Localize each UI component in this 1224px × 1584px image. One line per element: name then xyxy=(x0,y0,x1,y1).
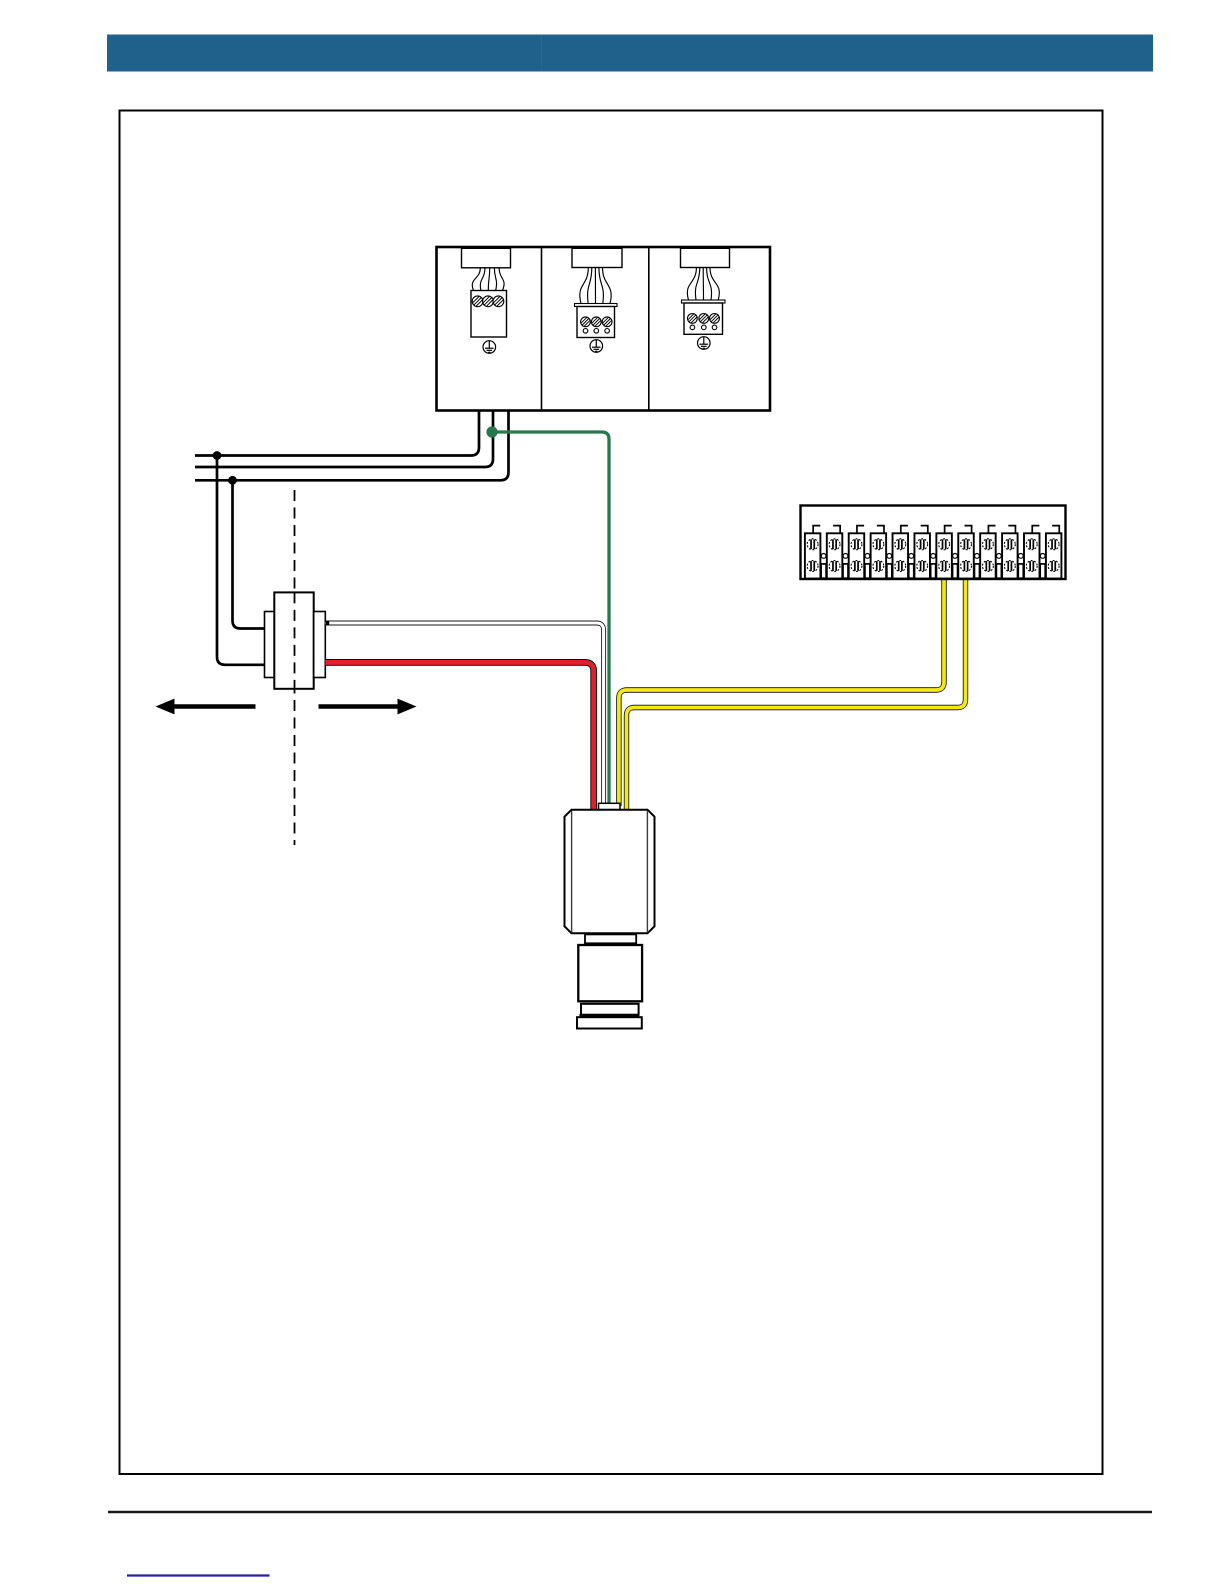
terminal 2 xyxy=(827,526,843,579)
TB3 screw 2 xyxy=(697,311,711,325)
strip gap circle 10 xyxy=(1018,554,1023,559)
TB1 screw 3 xyxy=(491,294,506,309)
diagram frame xyxy=(120,111,1103,1475)
terminal block TB3 lip xyxy=(682,300,726,303)
header cell divider xyxy=(541,35,542,72)
strip gap circle 4 xyxy=(887,554,892,559)
arrow right xyxy=(319,699,417,715)
device body xyxy=(565,810,655,934)
plug right half xyxy=(314,612,326,678)
cable gland 3 xyxy=(681,248,730,267)
terminal block TB2 xyxy=(577,307,615,338)
junction node A xyxy=(213,451,222,460)
device band xyxy=(581,1004,639,1015)
green PE wire xyxy=(492,432,609,806)
strip gap circle 11 xyxy=(1040,554,1045,559)
ground symbol PE2 xyxy=(590,340,603,353)
terminal block TB3 xyxy=(684,303,723,334)
strip gap circle 5 xyxy=(909,554,914,559)
terminal 6 xyxy=(914,526,930,579)
device bottom cap xyxy=(577,1017,642,1028)
yellow wire 2 outline xyxy=(627,579,966,812)
device body inner line right xyxy=(646,811,648,933)
strip gap circle 6 xyxy=(931,554,936,559)
strip slot 1 xyxy=(821,564,826,578)
TB1 screw 1 xyxy=(470,294,485,309)
yellow wire 2 core xyxy=(627,579,966,812)
terminal block TB1 xyxy=(471,291,507,338)
cell divider 1 xyxy=(541,247,543,411)
yellow wire 1 outline xyxy=(619,579,944,806)
white signal wire outline xyxy=(325,623,603,806)
plug body center xyxy=(274,592,313,688)
TB3 screw 3 xyxy=(708,311,722,325)
terminal block TB2 lip xyxy=(575,304,618,307)
ground symbol PE3 xyxy=(698,337,711,350)
cell divider 2 xyxy=(648,247,650,411)
device body inner line left xyxy=(571,811,573,933)
strip gap circle 2 xyxy=(843,554,848,559)
wire N xyxy=(195,411,493,468)
strip slot 10 xyxy=(1018,564,1023,578)
device block xyxy=(578,945,642,1001)
yellow wire 1 core xyxy=(619,579,944,806)
strip slot 3 xyxy=(865,564,870,578)
strip slot 9 xyxy=(996,564,1001,578)
centerline (dashed) xyxy=(294,490,296,845)
strip gap circle 3 xyxy=(865,554,870,559)
wire from node A to plug xyxy=(217,456,265,665)
green junction node xyxy=(486,426,497,437)
footer link underline xyxy=(127,1574,270,1576)
cable gland 2 xyxy=(572,248,622,267)
TB2 clamp circle 2 xyxy=(594,329,599,334)
header bar xyxy=(107,35,1153,72)
strip slot 2 xyxy=(843,564,848,578)
device cable gland xyxy=(599,803,621,809)
terminal 12 xyxy=(1046,526,1062,579)
wire fan 1 xyxy=(472,268,504,291)
terminal 3 xyxy=(849,526,865,579)
TB1 screw 2 xyxy=(480,294,495,309)
terminal 9 xyxy=(980,526,996,579)
strip slot 11 xyxy=(1040,564,1045,578)
strip gap circle 1 xyxy=(821,554,826,559)
TB2 screw 1 xyxy=(579,315,593,329)
wire L1 xyxy=(195,411,479,456)
plug left half xyxy=(265,612,275,678)
red wire outline xyxy=(325,662,593,812)
terminal 1 xyxy=(805,526,821,579)
TB2 screw 3 xyxy=(600,315,614,329)
TB3 screw 1 xyxy=(685,311,699,325)
cable gland 1 xyxy=(462,248,511,267)
junction node B xyxy=(228,476,237,485)
red wire core xyxy=(325,662,593,812)
TB2 screw 2 xyxy=(589,315,603,329)
terminal 10 xyxy=(1002,526,1018,579)
terminal 11 xyxy=(1024,526,1040,579)
strip gap circle 9 xyxy=(996,554,1001,559)
TB2 clamp circle 3 xyxy=(605,329,610,334)
strip slot 7 xyxy=(953,564,958,578)
arrow left xyxy=(156,699,256,715)
terminal 4 xyxy=(871,526,887,579)
terminal 8 xyxy=(958,526,974,579)
TB2 clamp circle 1 xyxy=(583,329,588,334)
wire L2 xyxy=(195,411,509,481)
strip slot 5 xyxy=(909,564,914,578)
footer rule xyxy=(108,1511,1152,1513)
strip slot 6 xyxy=(931,564,936,578)
centerline lower part redrawn over plug xyxy=(294,592,296,688)
terminal 5 xyxy=(893,526,909,579)
white wire pin mark xyxy=(326,621,330,626)
terminal strip outer xyxy=(801,506,1066,580)
TB3 clamp circle 3 xyxy=(712,325,717,330)
TB3 clamp circle 2 xyxy=(702,325,707,330)
strip slot 4 xyxy=(887,564,892,578)
white signal wire core xyxy=(325,623,603,806)
device band bottom bold line xyxy=(580,1014,640,1017)
device neck xyxy=(585,934,636,943)
strip slot 8 xyxy=(974,564,979,578)
terminal 7 xyxy=(936,526,952,579)
wire fan 3 xyxy=(687,268,719,301)
TB3 clamp circle 1 xyxy=(690,325,695,330)
wire fan 2 xyxy=(580,268,611,304)
strip gap circle 8 xyxy=(975,554,980,559)
wire from node B to plug xyxy=(233,480,265,628)
ground symbol PE1 xyxy=(483,341,496,354)
strip gap circle 7 xyxy=(953,554,958,559)
junction box outer xyxy=(437,247,771,411)
